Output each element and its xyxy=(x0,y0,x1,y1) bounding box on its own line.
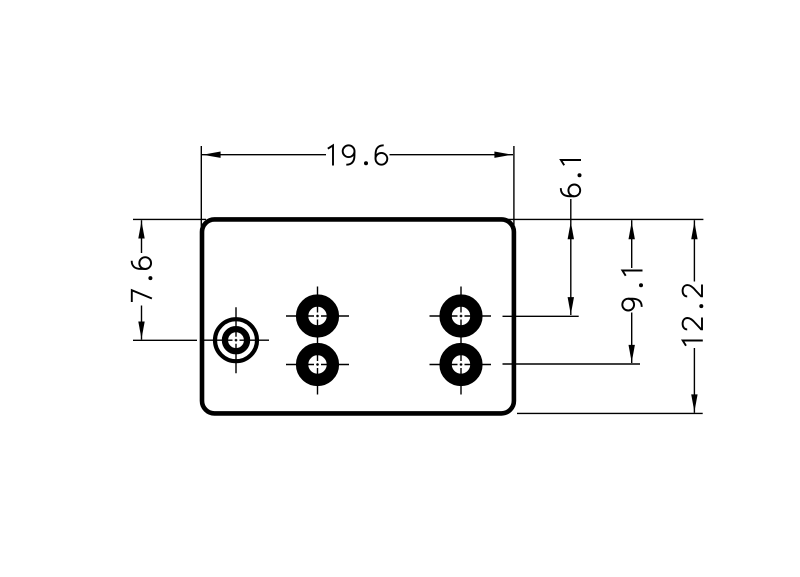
dimension text 12.2 xyxy=(683,285,704,346)
pin 3 (top-right annulus) xyxy=(446,301,477,332)
body top edge extension line right xyxy=(507,218,703,220)
dimension 9.1 line xyxy=(629,220,635,363)
dimension text 19.6 xyxy=(328,145,388,165)
pin 4 (bottom-right annulus) xyxy=(446,349,477,380)
dimension 7.6 extension line bottom (mounting hole center extended left) xyxy=(133,339,197,341)
dimension 7.6 extension line top (body top edge extended left) xyxy=(133,218,206,220)
pin 2 (bottom-left annulus) xyxy=(302,349,333,380)
pin row 1 extension line right xyxy=(503,315,579,317)
dimension 7.6 line xyxy=(138,220,144,339)
dimension 19.6 line xyxy=(202,152,513,158)
body bottom edge extension line right xyxy=(517,412,703,414)
dimension text 9.1 xyxy=(622,271,643,311)
pin 1 (top-left annulus) xyxy=(302,301,333,332)
dimension 6.1 line xyxy=(568,199,574,315)
pin row 2 extension line right xyxy=(503,363,641,365)
dimension text 6.1 xyxy=(561,160,582,196)
left pin column centerlines xyxy=(286,287,349,395)
right pin column centerlines xyxy=(430,287,492,395)
dimension text 7.6 xyxy=(132,257,153,302)
dimension 19.6 extension line right xyxy=(513,146,515,225)
component outline (rounded rectangle body) xyxy=(202,219,514,413)
mounting hole centerlines xyxy=(203,307,269,373)
dimension 19.6 extension line left xyxy=(200,146,202,227)
dimension 12.2 line xyxy=(691,220,697,413)
mounting hole (double ring) xyxy=(215,319,257,361)
